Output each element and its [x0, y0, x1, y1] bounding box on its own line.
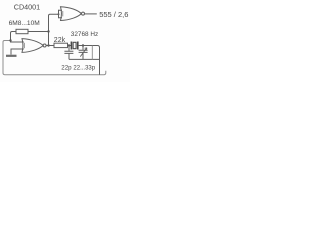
svg-text:22...33p: 22...33p	[73, 65, 95, 71]
wire: return path left edge and bottom (gate input to crystal return)	[3, 41, 101, 75]
wire: gate U1a output to 22k	[46, 45, 54, 47]
wire: gate U1a bottom input from ground	[11, 49, 24, 55]
ground	[6, 55, 17, 57]
svg-text:555 / 2,6: 555 / 2,6	[99, 10, 128, 19]
resistor R1 6M8...10M feedback: left wire	[11, 32, 17, 43]
node: junction dot gate1 input	[9, 39, 11, 41]
wire: U1b output to 555	[85, 13, 97, 15]
wire: capacitor ground rail	[69, 58, 100, 60]
svg-text:22k: 22k	[54, 37, 66, 44]
capacitor C2 plates	[79, 50, 88, 52]
capacitor C2 trimmer arrow	[80, 48, 87, 57]
resistor R2 22k body	[54, 43, 68, 47]
capacitor C2 top lead	[82, 46, 84, 50]
op-amp/gate U1a NOR body	[22, 39, 43, 53]
capacitor C2 trimmer 22...33p: node	[82, 44, 84, 46]
node: junction dot at U1b input bar	[58, 13, 60, 15]
wire: crystal right to corner	[78, 46, 100, 48]
gate U1b inner mark	[62, 11, 64, 16]
gate U1a inner mark	[23, 43, 25, 48]
wire: vertical from output node up to gate U1b input	[49, 14, 59, 45]
wire: R2 to crystal	[68, 45, 72, 47]
wire: R1 right to vertical node	[28, 31, 49, 33]
resistor R1 6M8...10M body	[16, 29, 28, 33]
wire: bottom-right corner hook	[101, 71, 106, 75]
svg-text:22p: 22p	[61, 64, 72, 71]
gate U1b input tie bar	[58, 10, 60, 18]
op-amp/gate U1b NOR body	[61, 7, 82, 21]
gate U1a output bubble	[43, 44, 46, 47]
capacitor C2 bottom lead	[82, 52, 84, 59]
wire: rail link from crystal wire	[91, 46, 93, 60]
crystal X1 32768 Hz	[70, 42, 72, 50]
wire: right vertical down to bottom	[99, 48, 101, 75]
svg-text:CD4001: CD4001	[14, 2, 40, 11]
wire: U1b input stubs	[59, 10, 63, 18]
node: junction dot at output branch	[47, 44, 49, 46]
svg-text:32768 Hz: 32768 Hz	[71, 31, 98, 38]
gate U1b output bubble	[82, 12, 85, 15]
capacitor C1 22p top lead	[68, 46, 70, 51]
capacitor C1 22p plates	[64, 51, 73, 53]
capacitor C1 22p: node	[68, 44, 70, 46]
wire: gate U1a top input stub	[11, 41, 24, 43]
svg-text:6M8...10M: 6M8...10M	[9, 20, 40, 27]
capacitor C1 22p bottom lead	[68, 53, 70, 59]
node: junction dot feedback wire joins vertical	[47, 30, 49, 32]
